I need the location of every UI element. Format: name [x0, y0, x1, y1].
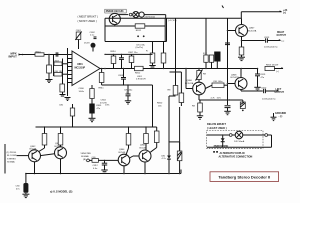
svg-text:C80 100n: C80 100n — [213, 81, 223, 83]
svg-text:MC1310P: MC1310P — [75, 66, 86, 69]
svg-text:a) U.S MODEL (S): a) U.S MODEL (S) — [50, 190, 72, 194]
svg-text:2x33u(2x47u): 2x33u(2x47u) — [264, 47, 278, 49]
svg-text:R812: R812 — [136, 30, 142, 32]
svg-text:OUTPUT: OUTPUT — [277, 35, 287, 37]
svg-text:(+): (+) — [282, 41, 285, 43]
svg-text:C810: C810 — [261, 87, 267, 89]
svg-text:R810: R810 — [111, 51, 117, 53]
svg-text:( LEAST USED ): ( LEAST USED ) — [207, 126, 227, 130]
svg-text:10/4u: 10/4u — [79, 91, 85, 93]
svg-text:47u/35: 47u/35 — [100, 102, 107, 104]
svg-text:Q806: Q806 — [187, 80, 193, 82]
svg-text:L801: L801 — [137, 76, 143, 78]
svg-text:Q808: Q808 — [231, 75, 237, 77]
svg-text:(+): (+) — [283, 12, 286, 15]
svg-text:(B): (B) — [83, 159, 86, 161]
svg-text:SIGNAL: SIGNAL — [7, 161, 16, 164]
svg-text:BC547A: BC547A — [248, 29, 257, 32]
svg-text:C812: C812 — [93, 165, 99, 167]
svg-text:Q807: Q807 — [249, 28, 255, 30]
svg-text:R820: R820 — [157, 103, 163, 105]
svg-text:OUTPUT: OUTPUT — [275, 92, 285, 94]
svg-text:BC547B: BC547B — [231, 77, 240, 79]
svg-text:(+17,4V): (+17,4V) — [168, 20, 177, 22]
svg-text:IN COMP: IN COMP — [7, 155, 17, 157]
svg-text:C80 44u: C80 44u — [124, 90, 133, 92]
svg-text:2x33u(2x47u): 2x33u(2x47u) — [262, 99, 276, 101]
svg-text:0.9/10mH: 0.9/10mH — [136, 79, 146, 81]
svg-text:10%: 10% — [217, 98, 221, 100]
svg-text:(2x47u): (2x47u) — [136, 47, 144, 49]
svg-text:C804: C804 — [101, 100, 107, 102]
svg-text:INPUT: INPUT — [9, 55, 18, 59]
svg-text:DC6V: DC6V — [84, 42, 90, 44]
svg-text:Q805: Q805 — [140, 145, 146, 147]
svg-text:R801: R801 — [36, 51, 42, 53]
svg-text:13%: 13% — [105, 105, 109, 107]
svg-text:Q804: Q804 — [119, 149, 125, 151]
svg-text:R R: R R — [203, 53, 207, 55]
svg-text:C801: C801 — [76, 30, 82, 32]
svg-text:BC548: BC548 — [119, 152, 126, 154]
svg-text:2N3904 BC183: 2N3904 BC183 — [106, 9, 124, 13]
svg-text:Tandberg Stereo Decoder II: Tandberg Stereo Decoder II — [218, 174, 270, 179]
svg-text:C819: C819 — [260, 74, 266, 76]
svg-text:BC548: BC548 — [30, 149, 37, 151]
svg-text:C807 15n: C807 15n — [128, 52, 138, 54]
svg-text:Q802: Q802 — [30, 146, 36, 148]
svg-text:SIGNAL: SIGNAL — [81, 155, 90, 158]
svg-text:( MOST USED ): ( MOST USED ) — [78, 19, 97, 23]
svg-text:STEREO: STEREO — [7, 158, 16, 160]
svg-text:→(-): →(-) — [278, 115, 283, 118]
svg-text:R815 25mW: R815 25mW — [266, 65, 279, 67]
svg-text:3N08 MODE: 3N08 MODE — [214, 144, 229, 148]
svg-text:VENSTRE: VENSTRE — [81, 153, 92, 155]
svg-text:C813: C813 — [264, 37, 270, 39]
svg-text:ALTERNATIVE CONNECTION: ALTERNATIVE CONNECTION — [219, 156, 253, 159]
svg-text:( MEST BRUKT ): ( MEST BRUKT ) — [78, 15, 99, 19]
svg-text:RIGHT: RIGHT — [277, 32, 285, 34]
svg-text:24V 50mA: 24V 50mA — [234, 140, 245, 143]
svg-text:R811: R811 — [99, 88, 105, 90]
svg-text:ALTERNATIV KOPLIN: ALTERNATIV KOPLIN — [220, 152, 245, 155]
svg-text:C808: C808 — [118, 75, 124, 77]
svg-text:C80 180: C80 180 — [54, 71, 63, 73]
svg-text:(1) PROG: (1) PROG — [7, 152, 17, 154]
svg-text:R812: R812 — [135, 73, 141, 75]
svg-text:(+): (+) — [276, 71, 279, 73]
svg-text:LEFT: LEFT — [276, 89, 282, 91]
svg-text:BC547A: BC547A — [185, 82, 194, 85]
svg-text:DELVIS BRUKT: DELVIS BRUKT — [207, 122, 226, 126]
svg-text:C803: C803 — [54, 60, 60, 62]
svg-text:C806: C806 — [79, 88, 85, 90]
svg-text:C805: C805 — [96, 105, 102, 107]
